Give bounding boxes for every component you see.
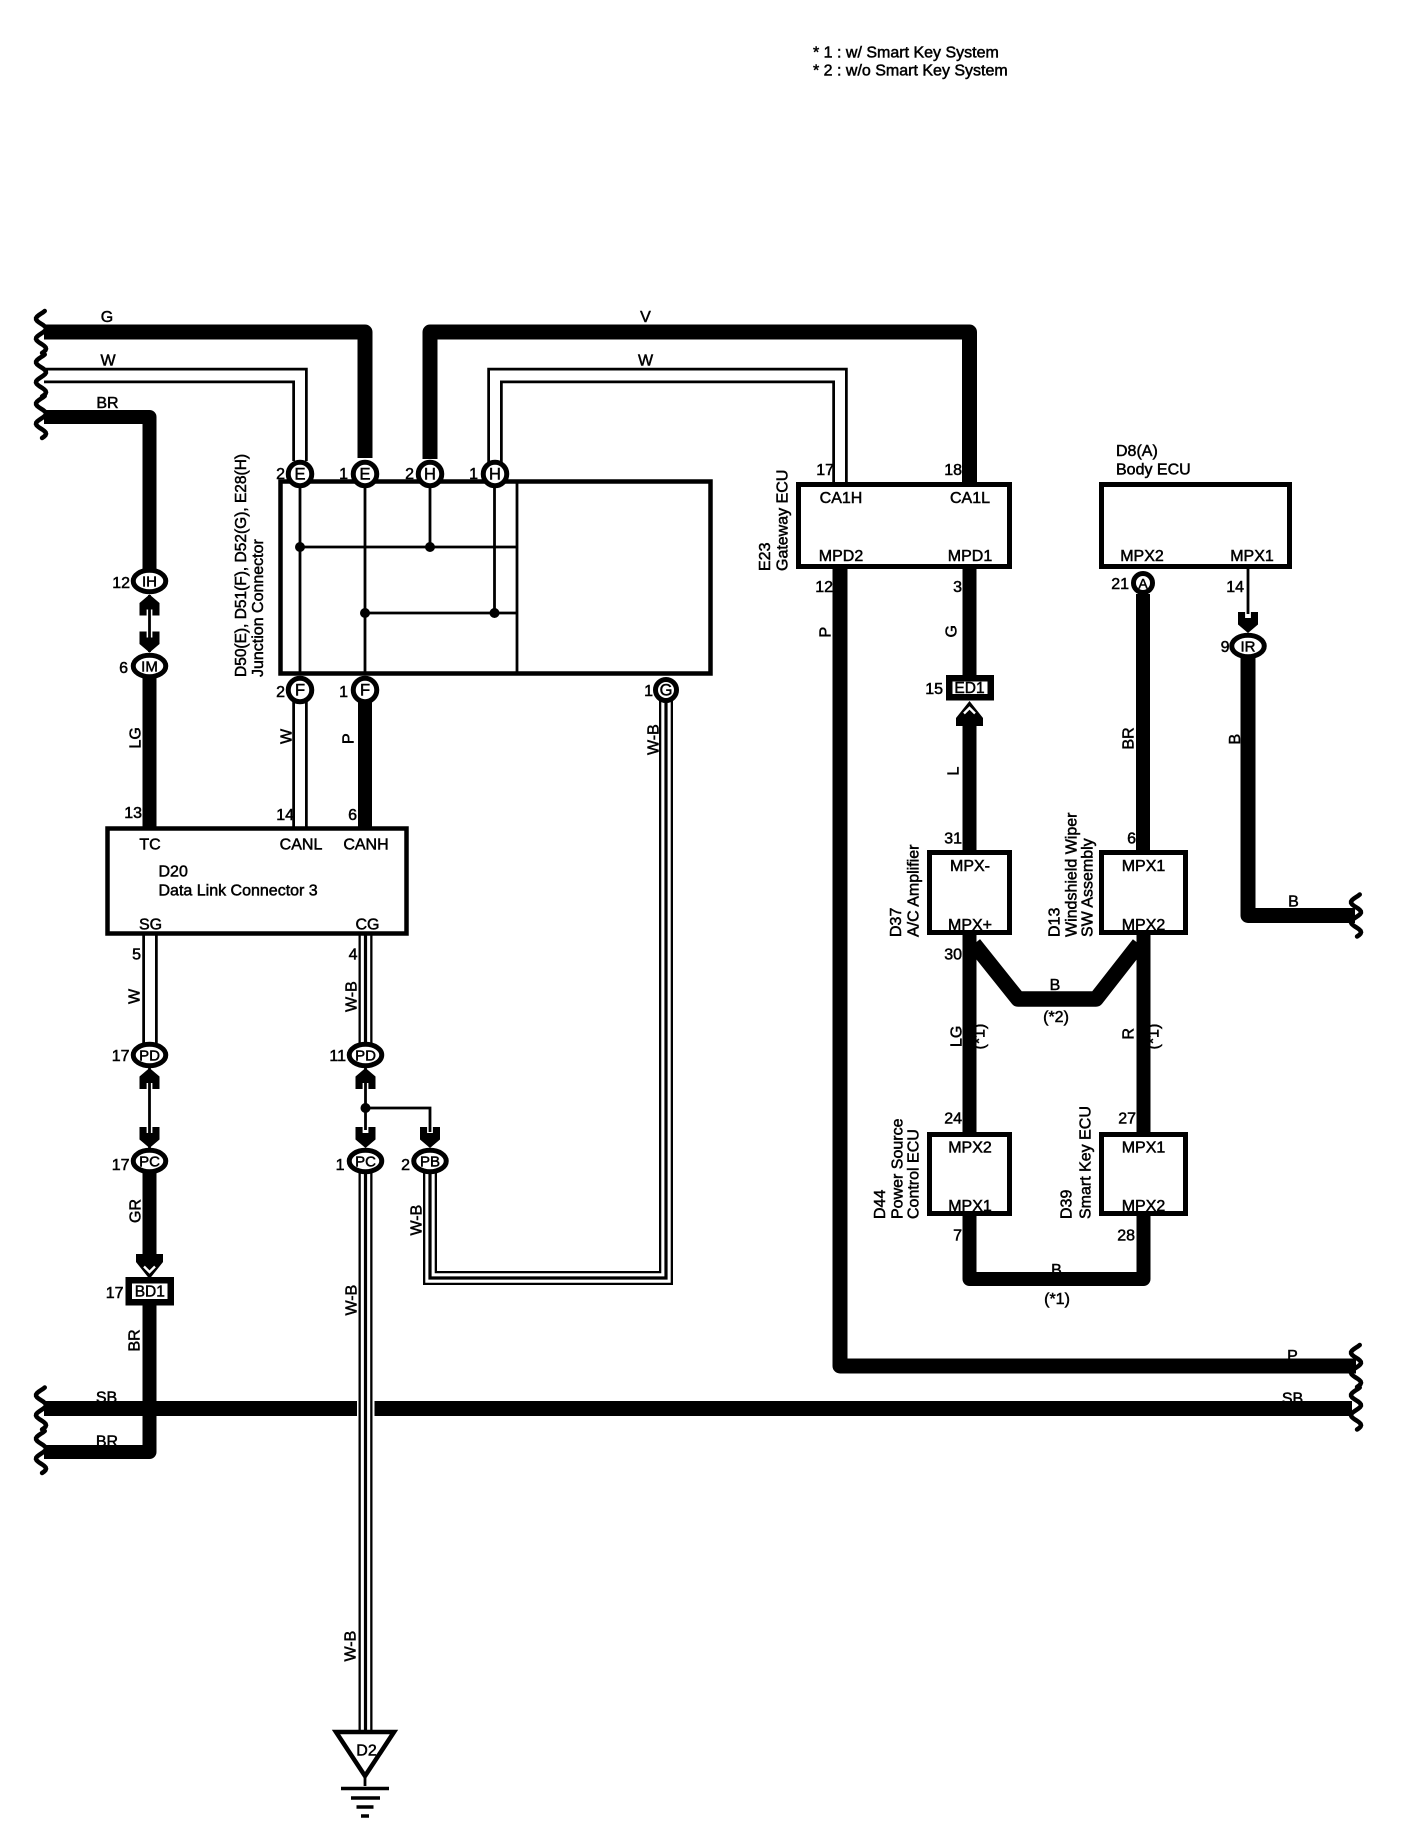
svg-text:W-B: W-B [344,1285,361,1316]
wire W-B (striped) connector PC down to ground D2 [359,1171,373,1732]
connector circle H pin 2 [418,462,442,486]
connector circle A pin 21 [1134,574,1153,593]
svg-text:H: H [489,465,501,483]
connector circle H pin 1 [483,462,507,486]
svg-text:30: 30 [944,947,962,964]
wire W-B (striped) D20 pin 4 CG down to connector PD [359,934,373,1043]
svg-text:Control ECU: Control ECU [906,1129,923,1219]
connector oval PB [414,1150,447,1172]
bus wire SB (thick) full width, gap at W-B crossing [44,1401,357,1416]
BD1 shield link [126,1277,175,1306]
svg-text:PC: PC [355,1153,376,1170]
svg-text:6: 6 [119,660,128,677]
svg-text:6: 6 [1127,831,1136,848]
svg-text:Data Link Connector 3: Data Link Connector 3 [159,883,318,900]
arrow pair above connector IM [140,632,160,653]
wire LG (thick) connector IM to D20 pin 13 TC [143,678,157,827]
svg-text:SB: SB [1282,1391,1303,1408]
svg-text:1: 1 [644,683,653,700]
svg-text:MPX1: MPX1 [1122,858,1166,875]
svg-text:Junction Connector: Junction Connector [250,538,267,677]
svg-text:W: W [100,353,116,370]
svg-text:1: 1 [336,1157,345,1174]
svg-text:1: 1 [339,466,348,483]
svg-text:31: 31 [944,831,962,848]
svg-text:D20: D20 [159,864,188,881]
svg-text:A: A [1138,575,1148,591]
wire BR (thick) body ECU connector A down to D13 pin 6 [1136,594,1150,851]
D44 Power Source Control ECU box [930,1135,1010,1214]
svg-text:CANL: CANL [280,837,323,854]
junction internal divider line [516,482,519,674]
connector oval IM [133,655,166,677]
svg-text:P: P [1287,1348,1298,1365]
svg-text:12: 12 [815,579,833,596]
svg-text:GR: GR [128,1199,145,1223]
svg-text:SG: SG [139,917,162,934]
break symbol wire W left [36,355,46,397]
svg-text:MPD1: MPD1 [948,548,993,565]
svg-text:W-B: W-B [344,981,361,1012]
svg-text:W: W [127,988,144,1004]
svg-text:13: 13 [124,805,142,822]
wire P (thick) junction F1 down to D20 pin 6 CANH [358,702,372,827]
svg-text:PC: PC [139,1153,160,1170]
svg-text:2: 2 [276,684,285,701]
D39 Smart Key ECU box [1102,1135,1186,1214]
svg-text:LG: LG [128,727,145,748]
junction dot E1 rail [360,608,370,618]
wire GR (thick) connector PC down to BD1 arrow [143,1171,157,1255]
thin wire between PD and PC (middle) [364,1068,367,1130]
D8(A) Body ECU box [1102,485,1290,567]
svg-text:D2: D2 [356,1743,377,1760]
connector oval PC middle [349,1150,382,1172]
svg-text:1: 1 [339,684,348,701]
junction dot on W-B branch [361,1103,371,1113]
svg-text:11: 11 [329,1048,346,1065]
connector oval IH [133,570,166,592]
svg-text:E: E [294,465,305,483]
junction internal wire E1-F1 [364,482,367,674]
svg-text:MPX2: MPX2 [1122,1198,1166,1215]
wire W (hollow) junction F2 down to D20 pin 14 CANL [292,702,308,827]
svg-text:W-B: W-B [646,724,663,755]
svg-text:D13: D13 [1047,908,1064,937]
svg-text:IM: IM [141,658,158,675]
wire BR (thick) BD1 down across SB bus to bottom-left break [44,1305,150,1452]
svg-text:F: F [360,681,370,699]
junction connector D50(E) D51(F) D52(G) E28(H) box [281,482,711,674]
svg-text:E: E [359,465,370,483]
connector circle E pin 2 [288,462,312,486]
svg-text:R: R [1121,1028,1138,1040]
junction internal wire from H2 [429,482,432,548]
svg-text:28: 28 [1117,1228,1135,1245]
svg-text:7: 7 [1127,947,1136,964]
junction internal CANH rail [365,612,517,615]
connector oval IR [1232,635,1265,657]
connector circle F pin 1 [353,678,377,702]
svg-text:F: F [295,681,305,699]
svg-text:G: G [101,309,113,326]
svg-text:MPD2: MPD2 [819,548,864,565]
svg-text:CG: CG [356,917,380,934]
svg-text:18: 18 [944,462,962,479]
svg-text:H: H [424,465,436,483]
svg-text:SB: SB [96,1390,117,1407]
arrow pair below connector PD left [140,1068,160,1089]
svg-text:P: P [341,733,358,744]
svg-text:BR: BR [96,395,118,412]
arrow pair above connector IR [1238,612,1258,633]
arrow into ED1 [956,701,983,726]
svg-text:17: 17 [106,1285,124,1302]
ground D2 [336,1732,394,1776]
thin wire between PD and PC (left) [148,1068,151,1148]
svg-text:ED1: ED1 [954,680,984,697]
svg-text:21: 21 [1111,576,1129,593]
wire L (thick) ED1 arrow down to D37 pin 31 [963,725,977,851]
wire W (hollow) from left break to junction E2 [44,376,300,462]
svg-text:BR: BR [1121,727,1138,749]
svg-text:Body ECU: Body ECU [1116,462,1191,479]
wire B (thick) connector IR down and right to break [1248,658,1355,916]
svg-text:14: 14 [1226,579,1244,596]
svg-text:E23: E23 [757,542,774,571]
svg-text:* 1 : w/ Smart Key System: * 1 : w/ Smart Key System [813,45,999,62]
svg-text:14: 14 [276,807,294,824]
svg-text:PD: PD [355,1047,376,1064]
E23 Gateway ECU box [799,485,1010,567]
junction dot E2 rail [295,542,305,552]
svg-text:27: 27 [1118,1111,1136,1128]
svg-text:17: 17 [816,462,834,479]
wire LG (thick) D37 pin 30 down to D44 pin 24 [963,934,977,1133]
svg-text:Windshield Wiper: Windshield Wiper [1064,812,1081,937]
svg-text:2: 2 [405,466,414,483]
arrow pair above connector PC left [140,1127,160,1148]
svg-text:MPX-: MPX- [950,858,990,875]
svg-text:(*1): (*1) [1044,1291,1070,1308]
wire W-B (striped) connector PB down, right, up to junction G1 [430,701,666,1278]
svg-text:LG: LG [949,1026,966,1047]
svg-text:CANH: CANH [343,837,388,854]
svg-text:D50(E), D51(F), D52(G), E28(H): D50(E), D51(F), D52(G), E28(H) [233,454,250,677]
svg-text:P: P [818,627,835,638]
svg-text:BR: BR [127,1329,144,1351]
svg-text:17: 17 [112,1048,130,1065]
wire V (thick) junction H2 to gateway CA1L pin 18 [430,332,970,483]
svg-text:15: 15 [925,681,943,698]
wire P (thick) gateway MPD2 pin 12 down and right to break [840,568,1356,1366]
arrow pair below connector IH [140,595,160,616]
svg-text:G: G [660,681,673,699]
svg-text:12: 12 [112,575,130,592]
svg-text:PD: PD [139,1047,160,1064]
arrow pair below connector PD middle [356,1068,376,1089]
svg-text:MPX+: MPX+ [948,917,992,934]
wire G (thick) gateway MPD1 pin 3 down to ED1 [963,568,977,676]
svg-text:B: B [1227,734,1244,745]
svg-text:MPX1: MPX1 [1122,1140,1166,1157]
svg-text:7: 7 [953,1228,962,1245]
D20 Data Link Connector 3 box [108,829,407,934]
svg-text:V: V [640,309,651,326]
svg-text:* 2 : w/o Smart Key System: * 2 : w/o Smart Key System [813,63,1008,80]
arrow into BD1 [136,1254,163,1279]
connector oval PC left [133,1150,166,1172]
wire W (hollow) D20 pin 5 SG down to connector PD [142,934,158,1043]
wire BR (thick) from left break down to connector IH [44,417,150,569]
break symbol wire BR bottom-left [36,1431,46,1473]
svg-text:IR: IR [1241,638,1256,655]
connector oval PD left [133,1044,166,1066]
svg-text:MPX2: MPX2 [1122,917,1166,934]
thin wire body ECU MPX1 pin 14 down to IR arrow [1247,568,1250,614]
svg-text:(*2): (*2) [1043,1009,1069,1026]
D13 Windshield Wiper SW Assembly box [1102,853,1186,933]
svg-text:4: 4 [349,947,358,964]
svg-text:MPX1: MPX1 [1230,548,1274,565]
connector oval PD middle [349,1044,382,1066]
svg-text:A/C Amplifier: A/C Amplifier [906,844,923,937]
svg-text:Power Source: Power Source [890,1118,907,1219]
svg-text:1: 1 [469,466,478,483]
break symbol wire BR left [36,396,46,438]
svg-text:D44: D44 [872,1190,889,1219]
svg-text:IH: IH [142,573,157,590]
svg-text:D39: D39 [1059,1190,1076,1219]
D37 A/C Amplifier box [930,853,1010,933]
svg-text:2: 2 [276,466,285,483]
svg-text:MPX2: MPX2 [948,1140,992,1157]
thin wire between IH and IM [148,595,151,652]
svg-text:B: B [1288,894,1299,911]
svg-text:TC: TC [139,837,160,854]
svg-text:W-B: W-B [343,1631,360,1662]
svg-text:BR: BR [96,1434,118,1451]
svg-text:B: B [1051,1262,1062,1279]
break symbol bus SB left [36,1388,46,1430]
arrow pair above connector PC middle [356,1127,376,1148]
wire R (thick) D13 pin 7 down to D39 pin 27 [1137,934,1151,1133]
break symbol wire G left [36,311,46,353]
junction dot H1 rail [490,608,500,618]
svg-text:9: 9 [1221,639,1230,656]
svg-text:B: B [1050,977,1061,994]
svg-text:17: 17 [112,1157,130,1174]
svg-text:CA1H: CA1H [820,490,863,507]
svg-text:3: 3 [953,579,962,596]
svg-text:CA1L: CA1L [950,490,990,507]
wire B (*1) thick U-link D44 pin 7 to D39 pin 28 [970,1215,1144,1279]
junction dot H2 rail [425,542,435,552]
connector circle E pin 1 [353,462,377,486]
svg-text:D8(A): D8(A) [1116,443,1158,460]
connector circle G pin 1 [656,680,677,701]
svg-text:W: W [279,728,296,744]
svg-text:MPX1: MPX1 [948,1198,992,1215]
junction internal wire from H1 [493,482,496,614]
connector circle F pin 2 [288,678,312,702]
svg-text:2: 2 [401,1157,410,1174]
svg-text:G: G [944,625,961,637]
wire G (thick) from left break to junction E1 [44,332,365,458]
svg-text:24: 24 [944,1111,962,1128]
svg-text:W-B: W-B [409,1205,426,1236]
svg-text:BD1: BD1 [135,1284,165,1301]
svg-text:5: 5 [132,947,141,964]
svg-text:Gateway ECU: Gateway ECU [775,470,792,571]
svg-text:D37: D37 [888,908,905,937]
svg-text:(*1): (*1) [972,1024,989,1050]
svg-text:(*1): (*1) [1146,1024,1163,1050]
junction internal wire E2-F2 [299,482,302,674]
svg-text:W: W [638,353,654,370]
thin branch wire PD junction dot to PB arrow [366,1108,431,1132]
junction internal CANL rail [300,546,517,549]
svg-text:MPX2: MPX2 [1120,548,1164,565]
wire B (*2) thick bridge D37 MPX+ to D13 MPX2 [974,944,1139,999]
svg-text:L: L [946,767,963,776]
svg-text:Smart Key ECU: Smart Key ECU [1078,1106,1095,1219]
break symbol bus SB right [1351,1388,1361,1430]
svg-text:6: 6 [348,807,357,824]
wire W (hollow) junction H1 to gateway CA1H pin 17 [495,376,840,484]
arrow pair above connector PB [420,1127,440,1148]
break symbol wire P right [1351,1345,1361,1387]
svg-text:SW Assembly: SW Assembly [1080,838,1097,937]
svg-text:PB: PB [420,1153,440,1170]
ED1 shield link [946,675,994,701]
break symbol wire B right [1351,895,1361,937]
